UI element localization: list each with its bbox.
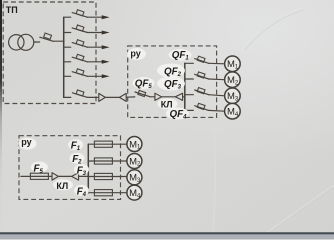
svg-text:КЛ: КЛ — [56, 181, 68, 191]
branch 4 breaker blade — [72, 57, 87, 62]
wire to motor M4 — [209, 109, 225, 112]
transformer T1 winding 2 — [18, 34, 34, 50]
breaker QF feed trip box — [44, 33, 52, 39]
svg-text:ТП: ТП — [6, 5, 18, 15]
left scan edge — [0, 0, 2, 233]
fuse F1 body — [94, 141, 112, 147]
breaker QF2 trip box — [197, 72, 205, 78]
motor M2 РУ1 — [225, 72, 241, 88]
branch 2 wire from bus — [64, 32, 71, 34]
blob QF5 — [133, 77, 155, 89]
blob QF4 — [166, 108, 189, 120]
branch 6 breaker trip box — [76, 90, 84, 96]
wire breaker to bus — [53, 40, 64, 42]
branch 1 breaker trip box — [76, 10, 84, 16]
branch 2 breaker trip box — [76, 25, 84, 31]
svg-text:ру: ру — [130, 49, 140, 59]
wire cable КЛ2 — [58, 175, 71, 177]
blob F2 — [70, 153, 85, 164]
branch 4 breaker trip box — [76, 54, 84, 60]
wire QF5 to connector — [150, 96, 155, 98]
branch 5 wire from bus — [64, 75, 71, 77]
РУ1 branch 2 wire — [185, 78, 194, 80]
breaker QF4 trip box — [197, 103, 205, 109]
paper creases (decorative, unlabeled) — [243, 8, 302, 48]
blob F4 — [74, 185, 89, 196]
breaker QF3 trip box — [197, 88, 205, 94]
motor M3 РУ1 — [225, 88, 241, 104]
connector plug КЛ right — [155, 93, 162, 100]
РУ1 branch 1 wire — [185, 62, 194, 64]
blob F3 — [74, 164, 89, 175]
РУ1 branch 4 wire — [185, 109, 194, 111]
wire into РУ1 — [126, 96, 135, 98]
branch 3 wire from bus — [64, 46, 71, 48]
wire to РУ1 bus — [183, 96, 185, 98]
blob QF3 — [157, 77, 185, 91]
motor M1 РУ2 — [127, 137, 142, 152]
fuse F3 body — [94, 173, 112, 179]
branch 4 wire from bus — [64, 61, 71, 63]
bus РУ2 — [87, 144, 89, 193]
РУ2 branch 2 wire — [88, 160, 127, 162]
wire РУ2 feeder — [21, 175, 52, 177]
branch 2 breaker blade — [72, 28, 87, 33]
wire to РУ2 bus — [78, 175, 88, 177]
branch 1 arrow — [102, 15, 110, 19]
wire transformer to breaker — [34, 41, 40, 43]
breaker QF2 blade — [195, 74, 209, 79]
РУ2 branch 1 wire — [88, 143, 127, 145]
breaker QF feed blade — [40, 37, 53, 41]
connector socket КЛ2 left — [72, 173, 79, 180]
breaker QF1 blade — [195, 59, 209, 64]
branch 2 wire out — [87, 32, 102, 34]
wire cable КЛ — [162, 96, 176, 98]
fuse F5 body — [30, 173, 48, 179]
РУ2 switchboard dashed box — [19, 136, 121, 200]
branch 5 breaker blade — [72, 72, 87, 77]
branch 2 arrow — [102, 31, 110, 35]
connector plug КЛ2 right — [52, 173, 58, 180]
branch 6 wire out — [88, 96, 98, 98]
fuse F4 body — [94, 190, 112, 196]
blob F1 — [68, 139, 83, 150]
РУ2 branch 4 wire — [88, 192, 127, 194]
wire to motor M2 — [209, 78, 225, 81]
branch 6 breaker blade — [72, 93, 87, 98]
bus ТП — [63, 17, 65, 97]
blob РУ1 label — [127, 48, 146, 60]
branch 6 wire from bus — [64, 96, 71, 98]
wire trunk cable — [105, 96, 119, 98]
branch 3 arrow — [102, 45, 110, 49]
transformer T1 winding 1 — [9, 35, 24, 50]
breaker QF5 blade — [135, 92, 150, 97]
motor M3 РУ2 — [127, 170, 142, 185]
branch 1 wire from bus — [64, 16, 71, 18]
connector socket КЛ left — [175, 93, 182, 100]
РУ1 switchboard dashed box — [128, 46, 217, 118]
breaker QF1 trip box — [197, 56, 205, 62]
breaker QF5 trip box — [138, 90, 146, 96]
breaker QF3 blade — [195, 90, 209, 95]
fuse F2 body — [94, 158, 112, 164]
blob QF2 — [157, 64, 185, 78]
branch 4 arrow — [102, 60, 110, 64]
branch 5 wire out — [87, 75, 102, 77]
ТП substation dashed box — [3, 2, 96, 104]
branch 3 breaker blade — [72, 43, 87, 48]
wire to motor M1 — [209, 62, 225, 65]
branch 5 breaker trip box — [76, 69, 84, 75]
wire to motor M3 — [209, 95, 225, 96]
svg-text:ру: ру — [21, 137, 31, 147]
bus РУ1 — [184, 63, 186, 110]
branch 5 arrow — [102, 74, 110, 78]
connector socket left — [120, 93, 127, 101]
blob QF1 — [169, 49, 192, 61]
branch 3 breaker trip box — [76, 40, 84, 46]
branch 3 wire out — [87, 46, 102, 48]
blob КЛ РУ2 — [53, 179, 73, 190]
branch 1 breaker blade — [72, 13, 87, 18]
motor M4 РУ2 — [127, 185, 142, 200]
breaker QF4 blade — [195, 106, 209, 111]
bottom paper edge line — [0, 232, 334, 235]
РУ2 branch 3 wire — [88, 176, 127, 178]
connector plug right — [99, 93, 106, 101]
blob F5 — [31, 162, 48, 173]
blob КЛ РУ1 — [158, 98, 178, 109]
РУ1 branch 3 wire — [185, 94, 194, 96]
motor M2 РУ2 — [127, 154, 142, 169]
branch 4 wire out — [87, 61, 102, 63]
motor M4 РУ1 — [225, 103, 241, 119]
blob РУ2 label — [19, 138, 37, 150]
motor M1 РУ1 — [225, 56, 241, 72]
branch 1 wire out — [87, 16, 102, 18]
